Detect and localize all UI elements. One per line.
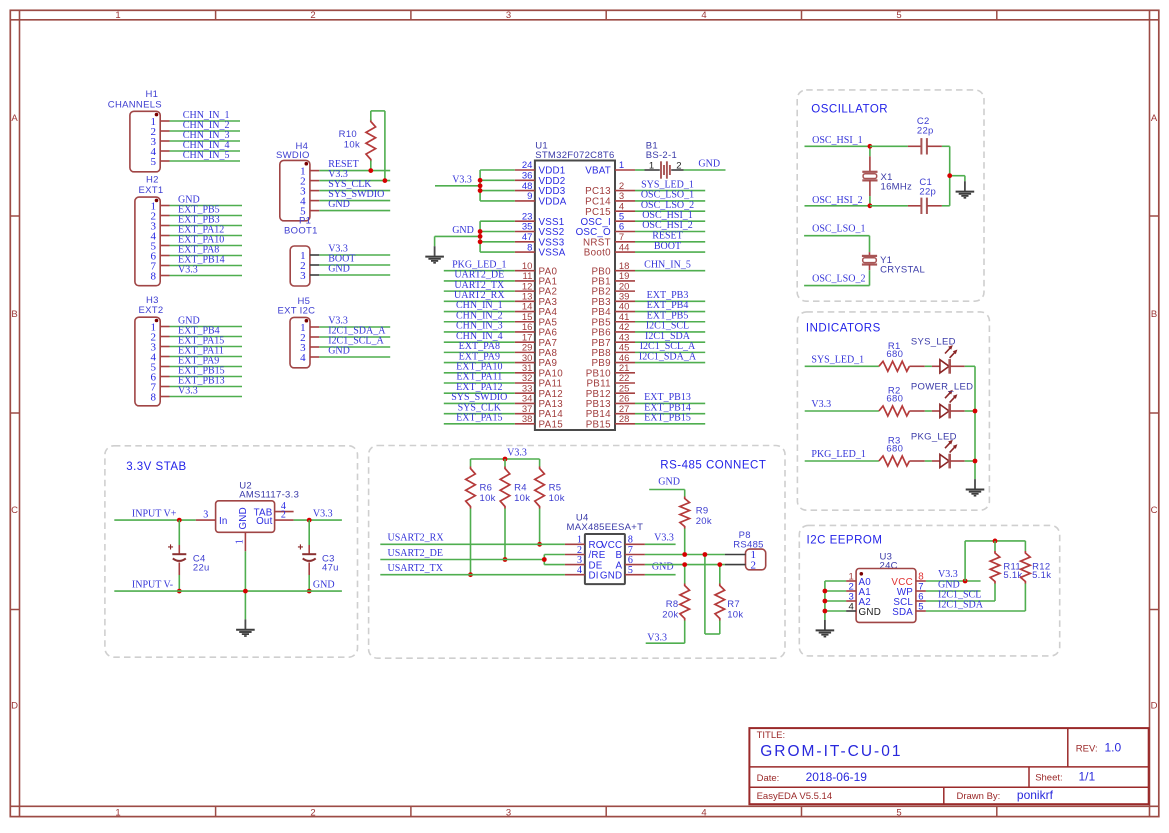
pin U4 /RE 2: [565, 545, 585, 556]
pin PA7 17: [515, 332, 557, 348]
wire net H4 SYS_CLK: [319, 179, 390, 190]
wire net UART2_DE: [444, 270, 515, 281]
junction U3 GND: [823, 609, 828, 614]
section box 3.3V STAB: [105, 446, 358, 657]
wire net H4 RESET: [319, 159, 390, 170]
pin NRST 7: [583, 232, 635, 248]
wire right vertical C2-C1: [950, 146, 965, 206]
svg-text:1: 1: [115, 807, 120, 818]
wire net OSC_HSI_1: [635, 210, 705, 221]
resistor R10 10k: [339, 120, 376, 162]
svg-text:PKG_LED: PKG_LED: [911, 431, 957, 442]
wire net H3 GND: [170, 315, 243, 326]
svg-text:8: 8: [527, 242, 532, 253]
svg-text:PA15: PA15: [539, 419, 564, 430]
svg-text:V3.3: V3.3: [647, 633, 667, 644]
svg-text:POWER_LED: POWER_LED: [911, 381, 973, 392]
svg-text:I2C EEPROM: I2C EEPROM: [807, 534, 883, 546]
svg-text:GROM-IT-CU-01: GROM-IT-CU-01: [760, 743, 902, 760]
svg-text:AMS1117-3.3: AMS1117-3.3: [239, 490, 299, 501]
connector H5 EXT I2C: [278, 296, 320, 368]
pin PA2 12: [515, 281, 557, 297]
pin PA12 33: [515, 383, 563, 399]
svg-text:V3.3: V3.3: [313, 509, 333, 520]
transceiver U4 MAX485EESA+T: [567, 513, 644, 584]
pin U3 WP 7: [897, 581, 926, 597]
pin U4 DE 3: [565, 555, 585, 566]
svg-text:SWDIO: SWDIO: [276, 150, 310, 161]
svg-text:1.0: 1.0: [1105, 740, 1122, 754]
wire net INPUT V+: [114, 509, 195, 521]
wire VBAT to battery: [635, 169, 645, 171]
wire GND bus to VSS pins: [435, 221, 515, 252]
junction R4 bottom: [503, 557, 508, 562]
svg-text:4: 4: [701, 10, 706, 21]
wire net H2 EXT_PB5: [170, 204, 243, 215]
svg-text:GND: GND: [328, 264, 350, 275]
svg-text:22p: 22p: [917, 126, 934, 137]
svg-text:GND: GND: [859, 607, 882, 618]
crystal Y1 CRYSTAL: [862, 236, 925, 286]
wire net OSC_HSI_2: [635, 220, 705, 231]
wire net CHN_IN_5: [170, 150, 241, 161]
connector H2 EXT1: [135, 175, 170, 286]
capacitor C4 22u: [168, 520, 210, 591]
connector P8 RS485: [725, 530, 766, 571]
connector P1 BOOT1: [284, 216, 319, 287]
svg-text:4: 4: [849, 601, 854, 612]
pin PB2 20: [591, 281, 635, 297]
pin PA11 32: [515, 373, 562, 389]
pin PC14 3: [585, 191, 635, 207]
wire R10 top loop to V3.3: [371, 111, 385, 181]
wire net GND at U4 GND: [645, 562, 676, 575]
wire net CHN_IN_1: [444, 300, 515, 311]
svg-text:Drawn By:: Drawn By:: [957, 791, 1001, 802]
svg-text:10k: 10k: [344, 139, 360, 150]
wire net H2 EXT_PB3: [170, 214, 243, 225]
ground symbol U1 GND: [425, 246, 444, 263]
wire net H2 EXT_PA8: [170, 244, 243, 255]
wire net H3 EXT_PA11: [170, 345, 243, 356]
wire net V3.3 top rail rs485: [471, 448, 540, 459]
svg-text:EasyEDA V5.5.14: EasyEDA V5.5.14: [757, 791, 833, 802]
wire net EXT_PA12: [444, 382, 515, 393]
wire net H5 I2C1_SCL_A: [319, 336, 390, 347]
pin PB13 26: [586, 394, 635, 410]
pin U4 B 7: [625, 545, 645, 556]
svg-text:In: In: [219, 516, 228, 527]
pin VDD1 24: [515, 160, 566, 176]
wire battery to GND: [684, 159, 726, 170]
wire net EXT_PB15: [635, 413, 705, 424]
capacitor C1 22p: [870, 177, 950, 214]
resistor R1 680: [879, 341, 910, 371]
pin U2 Out 2: [275, 509, 294, 520]
svg-text:28: 28: [619, 414, 630, 425]
pin U3 SDA 5: [892, 601, 926, 617]
svg-text:I2C1_SDA_A: I2C1_SDA_A: [639, 351, 697, 362]
wire net CHN_IN_4: [444, 331, 515, 342]
junction R5 bottom: [537, 542, 542, 547]
pin PC15 4: [585, 201, 635, 217]
svg-text:V3.3: V3.3: [178, 264, 198, 275]
wire net P1 GND: [319, 264, 390, 275]
svg-text:INPUT V-: INPUT V-: [132, 580, 173, 591]
wire net USART2_DE: [380, 548, 565, 565]
connector H4 SWDIO: [276, 141, 319, 221]
resistor R5 10k: [535, 459, 565, 544]
svg-text:RS-485 CONNECT: RS-485 CONNECT: [660, 459, 766, 471]
wire net H4 V3.3: [319, 169, 390, 180]
pin PB7 43: [591, 332, 635, 348]
wire net P1 V3.3: [319, 244, 390, 255]
junction VDD2: [478, 178, 483, 183]
pin U2 TAB 4: [275, 501, 294, 512]
pin PA1 11: [515, 271, 557, 287]
svg-text:9: 9: [527, 191, 532, 202]
svg-text:USART2_RX: USART2_RX: [388, 533, 445, 544]
pin U4 RO 1: [565, 535, 585, 546]
svg-text:CHANNELS: CHANNELS: [108, 99, 162, 110]
wire net B to P8: [645, 554, 725, 556]
svg-text:MAX485EESA+T: MAX485EESA+T: [567, 522, 644, 533]
wire net CHN_IN_2: [444, 310, 515, 321]
svg-text:Out: Out: [256, 516, 272, 527]
svg-text:A: A: [11, 113, 18, 124]
wire net EXT_PA11: [444, 372, 515, 383]
wire net I2C1_SDA at U3: [926, 599, 1026, 611]
junction VDD3: [478, 188, 483, 193]
pin U4 GND 5: [625, 565, 645, 576]
pin PA6 16: [515, 322, 558, 338]
svg-text:SYS_LED: SYS_LED: [911, 337, 956, 348]
wire net EXT_PB4: [635, 300, 705, 311]
wire net A to P8: [645, 564, 725, 566]
wire net I2C1_SCL_A: [635, 341, 705, 352]
svg-text:1: 1: [115, 10, 120, 21]
svg-text:OSC_LSO_1: OSC_LSO_1: [812, 224, 865, 235]
junction PKG_LED: [973, 459, 978, 464]
svg-text:10k: 10k: [480, 493, 496, 504]
battery B1 BS-2-1: [645, 141, 684, 179]
wire net H3 EXT_PB13: [170, 375, 243, 386]
svg-text:INPUT V+: INPUT V+: [132, 509, 177, 520]
wire net H5 GND: [319, 346, 390, 357]
wire net EXT_PB14: [635, 402, 705, 413]
pin PA3 13: [515, 292, 558, 308]
wire net PKG_LED_1: [444, 259, 515, 270]
wire net SYS_LED_1: [635, 179, 705, 190]
junction X1 bottom: [868, 203, 873, 208]
junction C3 top: [307, 518, 312, 523]
svg-text:CHN_IN_5: CHN_IN_5: [644, 259, 691, 270]
wire net I2C1_SDA_A: [635, 351, 705, 362]
svg-text:4: 4: [701, 807, 706, 818]
wire net H4 GND: [319, 199, 390, 210]
resistor R4 10k: [500, 459, 530, 560]
wire net OSC_LSO_1: [804, 224, 869, 236]
wire net USART2_RX: [380, 533, 565, 545]
pin VDD3 48: [515, 181, 566, 197]
wire net I2C1_SCL at U3: [926, 589, 995, 601]
resistor R8 20k: [646, 565, 690, 644]
wire net OSC_HSI_1: [805, 135, 870, 146]
svg-text:2: 2: [310, 807, 315, 818]
svg-text:VBAT: VBAT: [585, 166, 611, 177]
wire net I2C1_SDA: [635, 331, 705, 342]
wire net EXT_PA10: [444, 362, 515, 373]
svg-text:R7: R7: [727, 599, 740, 610]
section box I2C EEPROM: [799, 525, 1059, 656]
junction ground tap: [947, 173, 952, 178]
wire net EXT_PA15: [444, 413, 515, 424]
svg-text:10k: 10k: [514, 493, 530, 504]
wire net V3.3 at U4 VCC: [645, 533, 676, 545]
pin PA15 38: [515, 414, 563, 430]
svg-text:INDICATORS: INDICATORS: [806, 322, 881, 334]
wire net H2 EXT_PA10: [170, 234, 243, 245]
wire net UART2_TX: [444, 280, 515, 291]
pin PA13 34: [515, 394, 563, 410]
pin PB14 27: [586, 404, 635, 420]
svg-text:+: +: [297, 543, 303, 554]
pin U2 In 3: [196, 509, 216, 520]
pin PB0 18: [591, 261, 635, 277]
svg-text:EXT I2C: EXT I2C: [278, 305, 316, 316]
wire net CHN_IN_1: [170, 110, 241, 121]
wire net OSC_LSO_2: [635, 200, 705, 211]
pin PB8 45: [591, 343, 635, 359]
pin PB11 22: [586, 373, 635, 389]
junction R8-A: [682, 562, 687, 567]
junction R7 top on B: [703, 552, 708, 557]
mcu U1 STM32F072C8T6: [535, 141, 615, 431]
svg-text:ponikrf: ponikrf: [1017, 788, 1054, 802]
ground symbol stab: [236, 619, 255, 636]
wire net RESET: [635, 231, 705, 242]
pin PA5 15: [515, 312, 558, 328]
svg-text:3: 3: [506, 807, 511, 818]
resistor R2 680: [879, 386, 910, 416]
wire net OSC_HSI_2: [805, 195, 870, 206]
svg-text:22p: 22p: [919, 186, 936, 197]
svg-text:BOOT1: BOOT1: [284, 225, 318, 236]
junction R9-B: [682, 552, 687, 557]
wire net INPUT V- rail: [114, 580, 342, 592]
wire net GND at U3 WP: [926, 579, 981, 591]
wire net H5 V3.3: [319, 316, 390, 327]
pin U4 A 6: [625, 555, 645, 566]
svg-text:EXT_PA15: EXT_PA15: [456, 413, 502, 424]
svg-text:R8: R8: [666, 599, 679, 610]
pin PB6 42: [591, 322, 635, 338]
svg-text:V3.3: V3.3: [507, 448, 527, 459]
wire net H2 GND: [170, 194, 243, 205]
junction U3 A1: [823, 589, 828, 594]
ground symbol eeprom: [816, 620, 835, 637]
junction POWER_LED: [973, 409, 978, 414]
crystal X1 16MHz: [862, 146, 912, 206]
junction R6 bottom: [468, 572, 473, 577]
svg-text:1: 1: [235, 539, 246, 544]
wire net CHN_IN_2: [170, 120, 241, 131]
svg-text:VDDA: VDDA: [539, 197, 567, 208]
svg-text:2: 2: [310, 10, 315, 21]
wire net V3.3 at U3 VCC: [926, 569, 981, 581]
svg-text:A: A: [1151, 113, 1158, 124]
pin PB4 40: [591, 302, 635, 318]
connector H3 EXT2: [135, 295, 170, 406]
wire net H3 EXT_PA9: [170, 355, 243, 366]
wire net UART2_RX: [444, 290, 515, 301]
wire net P1 BOOT: [319, 254, 390, 265]
svg-text:2: 2: [281, 509, 286, 520]
svg-text:STM32F072C8T6: STM32F072C8T6: [535, 150, 614, 161]
led POWER_LED: [909, 381, 975, 418]
svg-text:44: 44: [619, 242, 630, 253]
svg-text:OSC_HSI_2: OSC_HSI_2: [812, 195, 863, 206]
junction R10-V3.3: [383, 178, 388, 183]
svg-text:R9: R9: [696, 506, 709, 517]
svg-text:3.3V STAB: 3.3V STAB: [126, 461, 187, 473]
svg-text:DI: DI: [589, 570, 599, 581]
svg-text:5: 5: [918, 601, 923, 612]
svg-text:GND: GND: [313, 580, 335, 591]
pin Boot0 44: [584, 242, 635, 258]
junction X1 top: [868, 144, 873, 149]
wire net EXT_PB13: [635, 392, 705, 403]
pin PB9 46: [591, 353, 635, 369]
svg-text:OSC_HSI_1: OSC_HSI_1: [812, 135, 863, 146]
junction U3 A2: [823, 599, 828, 604]
wire net PKG_LED_1: [805, 449, 879, 461]
svg-text:REV:: REV:: [1076, 743, 1098, 754]
svg-text:GND: GND: [328, 199, 350, 210]
junction C3 bottom: [307, 589, 312, 594]
net label V3.3: [452, 174, 472, 185]
svg-text:680: 680: [886, 349, 903, 360]
svg-text:OSC_LSO_2: OSC_LSO_2: [812, 274, 865, 285]
title block: [749, 728, 1148, 804]
svg-text:47u: 47u: [322, 562, 339, 573]
junction V3.3 feed: [478, 183, 483, 188]
svg-text:8: 8: [151, 270, 157, 282]
svg-text:38: 38: [522, 414, 533, 425]
wire U2 GND pin to rail: [244, 551, 246, 619]
svg-text:V3.3: V3.3: [178, 385, 198, 396]
svg-text:5.1k: 5.1k: [1032, 570, 1051, 581]
pin U4 DI 4: [565, 565, 585, 576]
resistor R6 10k: [466, 459, 496, 575]
svg-text:USART2_TX: USART2_TX: [388, 563, 444, 574]
ground symbol oscillator: [956, 181, 975, 198]
wire net OSC_LSO_1: [635, 190, 705, 201]
pin VBAT 1: [585, 160, 635, 176]
regulator U2 AMS1117-3.3: [216, 480, 300, 532]
junction VSS2: [478, 229, 483, 234]
wire net H3 EXT_PA15: [170, 335, 243, 346]
svg-text:3: 3: [203, 509, 208, 520]
svg-text:1: 1: [619, 160, 624, 171]
svg-text:3: 3: [300, 270, 306, 282]
pin U3 VCC 8: [891, 571, 925, 587]
svg-text:20k: 20k: [662, 609, 678, 620]
svg-text:B: B: [11, 309, 17, 320]
wire U2 out to V3.3: [294, 509, 342, 521]
pin PB15 28: [586, 414, 635, 430]
svg-text:R4: R4: [514, 482, 527, 493]
net label GND: [452, 225, 474, 236]
svg-text:680: 680: [886, 394, 903, 405]
junction R11 top: [993, 539, 998, 544]
svg-text:4: 4: [577, 565, 582, 576]
wire net H3 EXT_PB15: [170, 365, 243, 376]
pin PC13 2: [585, 181, 635, 197]
svg-text:BOOT: BOOT: [654, 241, 681, 252]
resistor R11 5.1k: [990, 541, 1022, 601]
svg-text:R5: R5: [549, 482, 562, 493]
wire net H4 SYS_SWDIO: [319, 189, 390, 200]
svg-text:8: 8: [151, 391, 157, 403]
svg-text:OSCILLATOR: OSCILLATOR: [811, 104, 888, 116]
svg-text:10k: 10k: [549, 493, 565, 504]
pin PA4 14: [515, 302, 558, 318]
section box RS-485 CONNECT: [369, 446, 785, 659]
pin VDD2 36: [515, 171, 566, 187]
svg-text:CRYSTAL: CRYSTAL: [880, 265, 925, 276]
svg-text:C: C: [1151, 505, 1158, 516]
pin OSC_O 6: [576, 222, 635, 238]
pin U3 A1 2: [846, 581, 871, 597]
svg-text:GND: GND: [238, 507, 249, 529]
section box INDICATORS: [797, 312, 989, 510]
wire net EXT_PA8: [444, 341, 515, 352]
wire net H5 I2C1_SDA_A: [319, 326, 390, 337]
wire net H2 V3.3: [170, 264, 243, 275]
svg-text:C: C: [11, 505, 18, 516]
wire net OSC_LSO_2: [804, 274, 869, 286]
svg-text:SYS_LED_1: SYS_LED_1: [811, 355, 864, 366]
pin U3 A2 3: [846, 591, 871, 607]
svg-text:EXT_PB15: EXT_PB15: [644, 413, 691, 424]
svg-text:GND: GND: [328, 346, 350, 357]
pin PB5 41: [591, 312, 635, 328]
capacitor C2 22p: [870, 116, 950, 154]
pin OSC_I 5: [580, 211, 635, 227]
svg-text:GND: GND: [698, 159, 720, 170]
capacitor C3 47u: [297, 520, 338, 591]
wire net CHN_IN_3: [444, 321, 515, 332]
eeprom U3 24C: [856, 552, 916, 623]
svg-text:+: +: [168, 543, 174, 554]
svg-text:V3.3: V3.3: [811, 399, 831, 410]
svg-text:1/1: 1/1: [1079, 770, 1096, 784]
wire LED cathode bus: [974, 366, 976, 479]
svg-text:5.1k: 5.1k: [1003, 570, 1022, 581]
svg-text:5: 5: [896, 807, 901, 818]
svg-text:EXT2: EXT2: [139, 305, 164, 316]
svg-text:V3.3: V3.3: [654, 533, 674, 544]
pin VSS3 47: [515, 232, 565, 248]
pin PB12 25: [586, 383, 635, 399]
pin U3 GND 4: [846, 601, 881, 617]
svg-text:GND: GND: [600, 570, 622, 581]
wire net SYS_SWDIO: [444, 392, 515, 403]
wire pullup top rail: [965, 541, 1025, 581]
svg-text:PKG_LED_1: PKG_LED_1: [811, 449, 865, 460]
pin U2 GND 1: [235, 532, 246, 551]
